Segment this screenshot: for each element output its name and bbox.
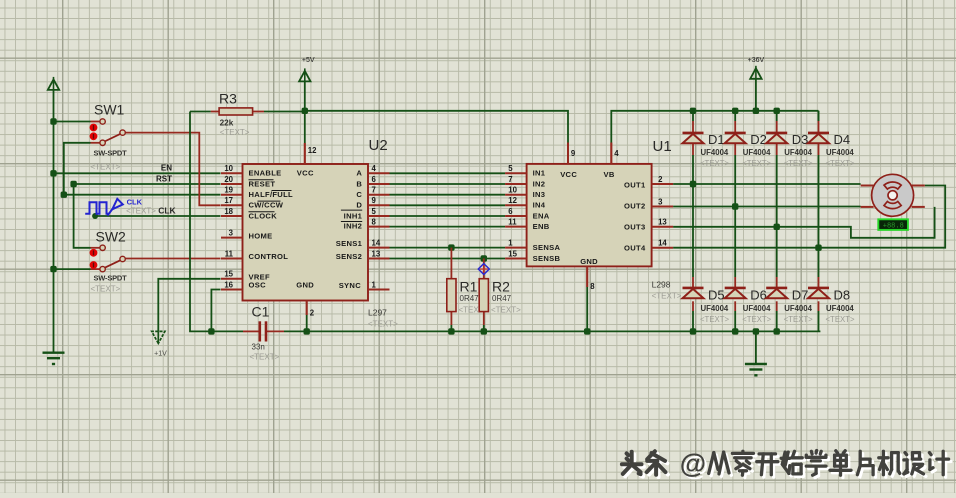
wire R1 top lead [450,248,452,279]
origin marker (blue diamond) [478,264,489,275]
wire SENSA net [390,247,506,249]
svg-text:4: 4 [614,149,619,158]
U2 pin 15 (left) [221,270,243,279]
svg-text:UF4004: UF4004 [784,148,812,157]
wire +36V arrow drop [755,79,757,111]
node SW1-branch/HALF-FULL junction [61,192,67,198]
power symbol (top-left supply arrow) [53,77,55,90]
svg-text:VB: VB [604,170,615,179]
svg-text:<TEXT>: <TEXT> [784,159,813,168]
svg-text:UF4004: UF4004 [784,304,812,313]
wire U1 VB pin 4 riser [610,143,612,164]
diode D5 (UF4004) [683,288,730,325]
svg-text:17: 17 [224,196,233,205]
svg-text:12: 12 [508,196,517,205]
resistor R3 [219,91,253,138]
wire D3/D7 output column [776,143,778,155]
svg-text:INH1: INH1 [344,211,363,220]
svg-text:+88.8: +88.8 [883,223,904,231]
node OSC/rail junction [208,328,214,334]
U1 pin 13 (right) [652,218,674,227]
resistor R1 [447,279,489,315]
U2 pin 10 (left) [221,164,243,173]
wire CLK net [95,215,220,217]
svg-text:R1: R1 [460,279,478,295]
svg-text:9: 9 [372,196,377,205]
wire D-IN4 net [390,204,506,206]
node +36V junction [753,108,759,114]
svg-text:ENA: ENA [533,211,550,220]
svg-text:5: 5 [372,207,377,216]
U1 pin 7 (left) [505,175,526,184]
wire VREF net to +1V [158,279,220,332]
svg-text:3: 3 [229,228,234,237]
clock generator CLK (DCLOCK source) [85,197,176,215]
svg-text:UF4004: UF4004 [826,148,854,157]
svg-text:SYNC: SYNC [339,281,362,290]
svg-text:1: 1 [372,280,377,289]
diode D8 (UF4004) [808,288,855,325]
svg-text:SENSB: SENSB [533,254,561,263]
svg-text:7: 7 [372,186,376,195]
svg-text:RESET: RESET [249,179,276,188]
svg-text:D6: D6 [750,288,767,303]
svg-text:8: 8 [590,282,595,291]
svg-text:A: A [356,169,362,178]
node SENSB/R2 [481,255,487,261]
U2 pin 11 (left) [221,249,243,258]
svg-text:UF4004: UF4004 [826,304,854,313]
wire HALF/FULL net [64,194,221,196]
wire R3 left to oscillator column [190,111,211,113]
node R2/rail [481,328,487,334]
wire EN net [54,164,221,174]
wire rail to SW2 bottom throw [54,268,91,270]
node R1/rail [448,328,454,334]
wire D1 cathode lead to +36V rail [692,111,694,121]
svg-text:IN3: IN3 [533,190,546,199]
node ground rail / D5 [690,328,696,334]
svg-text:D5: D5 [708,288,725,303]
diode D3 (UF4004) [766,132,813,168]
svg-text:SW-SPDT: SW-SPDT [94,149,128,158]
svg-text:+1V: +1V [154,351,167,358]
node U2 GND/rail [304,328,310,334]
U2 pin 14 (right) [368,238,390,247]
svg-text:2: 2 [310,309,315,318]
svg-text:OUT4: OUT4 [624,244,646,253]
wire +5V node down to U2 VCC pin 12 [304,111,306,143]
svg-text:RST: RST [156,174,172,183]
svg-text:<TEXT>: <TEXT> [784,315,813,324]
svg-text:7: 7 [508,175,512,184]
svg-text:D3: D3 [792,132,809,147]
svg-text:16: 16 [224,280,233,289]
wire D6 anode lead to ground rail [734,301,736,311]
node U1 GND/rail [584,328,590,334]
svg-text:1: 1 [508,238,513,247]
wire INH1-ENA net [390,215,506,217]
wire left supply rail [53,90,55,353]
U1 pin 4 (top, VS) [611,143,619,164]
U2 pin 1 (right) [368,280,390,289]
svg-text:L297: L297 [368,308,387,318]
node rail/EN [50,170,56,176]
svg-text:ENB: ENB [533,222,550,231]
svg-text:HALF/FULL: HALF/FULL [249,190,294,199]
svg-text:R3: R3 [219,91,237,107]
svg-text:<TEXT>: <TEXT> [91,163,121,172]
U2 pin 17 (left) [221,196,243,205]
wire RST branch down to SW2 top throw [74,184,91,248]
svg-text:INH2: INH2 [344,222,363,231]
wire U2 GND pin 2 to rail [306,301,308,316]
svg-text:6: 6 [508,207,513,216]
svg-text:20: 20 [224,175,233,184]
svg-text:4: 4 [372,164,377,173]
svg-text:D2: D2 [750,132,767,147]
svg-text:UF4004: UF4004 [701,148,729,157]
U1 pin 5 (left) [505,164,526,173]
svg-text:0R47: 0R47 [460,294,480,303]
svg-text:ENABLE: ENABLE [249,169,282,178]
svg-text:GND: GND [296,281,314,290]
wire SW1 pole to CW/CCW pin (maroon) [125,133,220,206]
wire SW2 pole to CONTROL pin (maroon) [125,258,221,260]
wire D2/D6 output column [734,143,736,155]
U2 pin 7 (right) [368,186,390,195]
wire D7 anode lead to ground rail [776,301,778,311]
wire U1 GND pin 8 to rail [586,266,588,287]
svg-text:D8: D8 [834,288,851,303]
wire RST net [74,174,221,184]
U2 pin 8 (right) [368,217,390,226]
wire INH2-ENB net [390,226,506,228]
svg-text:@: @ [680,449,706,479]
svg-text:D: D [356,201,362,210]
svg-text:U1: U1 [653,138,672,155]
svg-text:SENS2: SENS2 [336,252,362,261]
diode D1 (UF4004) [683,132,730,168]
U2 pin 19 (left) [221,186,243,195]
svg-text:U2: U2 [369,137,388,154]
svg-text:<TEXT>: <TEXT> [220,128,250,137]
wire D4/D8 output column [818,143,820,155]
IC U2 body (L297) [243,164,369,301]
svg-text:10: 10 [508,186,517,195]
wire A-IN1 net [390,172,506,174]
svg-text:IN2: IN2 [533,179,546,188]
node RST/SW2 junction [70,181,76,187]
svg-text:+36V: +36V [748,57,765,64]
U1 pin 14 (right) [652,239,674,248]
wire C1 right plate to GND-net rail [267,330,284,332]
U2 pin 2 (bottom, GND) [307,301,315,318]
node rail/SW1 [50,118,56,124]
svg-text:L298: L298 [652,280,671,290]
node OUT2 / diode column [732,203,738,209]
U2 pin 9 (right) [368,196,390,205]
U2 pin 20 (left) [221,175,243,184]
svg-text:VCC: VCC [560,170,577,179]
node OUT4 / diode column [815,245,821,251]
wire R2 bottom lead [483,312,485,325]
svg-text:3: 3 [658,197,663,206]
node +36V rail / D3 [774,108,780,114]
svg-text:<TEXT>: <TEXT> [700,315,729,324]
svg-text:0R47: 0R47 [492,294,512,303]
node OUT1 / diode column [690,181,696,187]
U2 pin 4 (right) [368,164,390,173]
power symbol +5V [299,57,315,81]
U1 pin 3 (right) [652,197,674,206]
svg-text:D4: D4 [834,132,851,147]
wire rail to SW1 top throw [54,121,91,123]
svg-text:19: 19 [224,186,233,195]
power symbol +1V (down arrow) [152,331,167,357]
svg-text:SW1: SW1 [94,102,125,118]
watermark text [622,449,951,481]
svg-text:<TEXT>: <TEXT> [742,159,771,168]
node ground rail / D7 [774,328,780,334]
wire OUT4 net [673,186,945,248]
switch SW2 [90,229,128,294]
svg-text:8: 8 [372,217,377,226]
svg-text:<TEXT>: <TEXT> [700,159,729,168]
svg-text:OUT3: OUT3 [624,223,645,232]
svg-text:12: 12 [308,146,317,155]
svg-text:18: 18 [224,207,233,216]
wire +5V run to U1 VCC pin 9 [305,111,568,143]
U1 pin 6 (left) [505,207,526,216]
svg-text:<TEXT>: <TEXT> [126,207,156,216]
switch SW1 [90,102,128,172]
U1 pin 2 (right) [652,175,674,184]
node +36V rail / D1 [690,108,696,114]
svg-text:HOME: HOME [249,231,273,240]
svg-text:15: 15 [508,249,517,258]
svg-text:14: 14 [658,239,667,248]
wire rail to C1 left plate [211,330,243,332]
U2 pin 5 (right) [368,207,390,216]
U1 pin 11 (left) [505,217,526,226]
wire R1 bottom lead [450,312,452,325]
svg-text:<TEXT>: <TEXT> [826,315,855,324]
svg-text:UF4004: UF4004 [743,304,771,313]
svg-text:SW-SPDT: SW-SPDT [94,274,128,283]
node CLK generator terminal [92,213,98,219]
svg-text:R2: R2 [492,279,510,295]
svg-text:+5V: +5V [302,57,315,64]
svg-text:11: 11 [225,249,234,258]
node +5V junction [302,108,308,114]
svg-text:D1: D1 [708,132,725,147]
U2 pin 16 (left) [221,280,243,289]
svg-text:<TEXT>: <TEXT> [368,320,398,329]
U1 pin 12 (left) [505,196,526,205]
wire OUT1 net [673,183,861,185]
svg-text:VCC: VCC [297,169,314,178]
wire R3 right to +5V node [253,111,264,113]
svg-text:<TEXT>: <TEXT> [91,285,121,294]
svg-text:<TEXT>: <TEXT> [742,315,771,324]
diode D4 (UF4004) [808,132,855,168]
wire SW1 bottom throw to HALF/FULL net [91,142,100,144]
wire R2 top lead [483,259,485,279]
wire D4 cathode lead to +36V rail [818,111,820,121]
wire B-IN2 net [390,183,506,185]
svg-text:14: 14 [372,238,381,247]
svg-text:UF4004: UF4004 [743,148,771,157]
U2 pin 13 (right) [368,249,390,258]
U1 pin 1 (left) [505,238,526,247]
svg-text:<TEXT>: <TEXT> [491,306,521,315]
node +36V rail / D2 [732,108,738,114]
svg-text:6: 6 [372,175,377,184]
U2 pin 12 (top, VCC) [305,143,317,164]
svg-text:C: C [356,190,362,199]
svg-text:CLK: CLK [158,206,176,216]
U1 pin 8 (bottom, GND) [587,266,595,290]
svg-text:SENSA: SENSA [533,243,561,252]
svg-text:2: 2 [658,175,663,184]
svg-text:9: 9 [571,149,576,158]
wire SENSB net [390,258,506,260]
svg-text:22k: 22k [220,118,234,127]
wire OUT2 net [673,206,861,208]
stepper motor MOTOR (4-phase) [861,174,925,216]
node SENSA/R1 [448,244,454,250]
svg-text:UF4004: UF4004 [701,304,729,313]
svg-text:GND: GND [580,257,598,266]
wire D3 cathode lead to +36V rail [776,111,778,121]
wire +5V arrow drop [304,81,306,111]
U2 pin 18 (left) [221,207,243,216]
svg-text:EN: EN [161,164,172,173]
svg-text:<TEXT>: <TEXT> [250,353,280,362]
node ground rail / right ground symbol [753,328,759,334]
svg-text:CW/CCW: CW/CCW [249,201,284,210]
wire D8 anode lead to ground rail [818,301,820,311]
svg-text:OUT1: OUT1 [624,181,646,190]
wire +36V rail drop to D4 [818,111,820,121]
svg-text:CLK: CLK [127,197,143,206]
svg-text:IN4: IN4 [533,201,546,210]
svg-text:IN1: IN1 [533,169,546,178]
diode D7 (UF4004) [766,288,813,325]
svg-text:15: 15 [224,270,233,279]
U1 pin 15 (left) [505,249,526,258]
wire D2 cathode lead to +36V rail [734,111,736,121]
node ground rail / D6 [732,328,738,334]
ground (bottom right) [745,363,767,365]
U1 pin 9 (top, VCC) [568,143,576,164]
motor speed display [878,219,908,230]
svg-text:CONTROL: CONTROL [249,252,289,261]
IC U1 body (L298) [527,164,652,267]
ground (bottom left) [43,352,65,354]
wire C-IN3 net [390,194,506,196]
wire long vertical from R3 down to bottom rail [190,112,211,332]
svg-text:<TEXT>: <TEXT> [652,292,682,301]
resistor R2 [479,279,521,315]
diode D2 (UF4004) [725,132,772,168]
svg-text:13: 13 [658,218,667,227]
svg-text:11: 11 [508,217,517,226]
svg-text:33n: 33n [252,343,265,352]
wire OUT3 net (with jog under motor) [673,207,935,238]
svg-text:CLOCK: CLOCK [249,211,278,220]
wire OSC net [211,290,220,332]
svg-text:D7: D7 [792,288,809,303]
svg-text:13: 13 [372,249,381,258]
svg-text:SENS1: SENS1 [336,239,363,248]
U1 pin 10 (left) [505,186,526,195]
svg-text:C1: C1 [252,304,270,320]
U2 pin 6 (right) [368,175,390,184]
svg-text:SW2: SW2 [96,229,127,245]
svg-text:10: 10 [224,164,233,173]
wire D5 anode lead to ground rail [692,301,694,311]
power symbol +36V [748,57,765,79]
svg-text:OUT2: OUT2 [624,202,645,211]
capacitor C1 [250,304,280,362]
svg-text:<TEXT>: <TEXT> [826,159,855,168]
diode D6 (UF4004) [725,288,772,325]
node rail/SW2 bottom throw [50,266,56,272]
node OUT3 / diode column [774,224,780,230]
svg-text:B: B [356,179,362,188]
svg-text:5: 5 [508,164,513,173]
wire D1/D5 output column [692,143,694,155]
svg-text:OSC: OSC [249,281,267,290]
U2 pin 3 (left) [221,228,243,237]
